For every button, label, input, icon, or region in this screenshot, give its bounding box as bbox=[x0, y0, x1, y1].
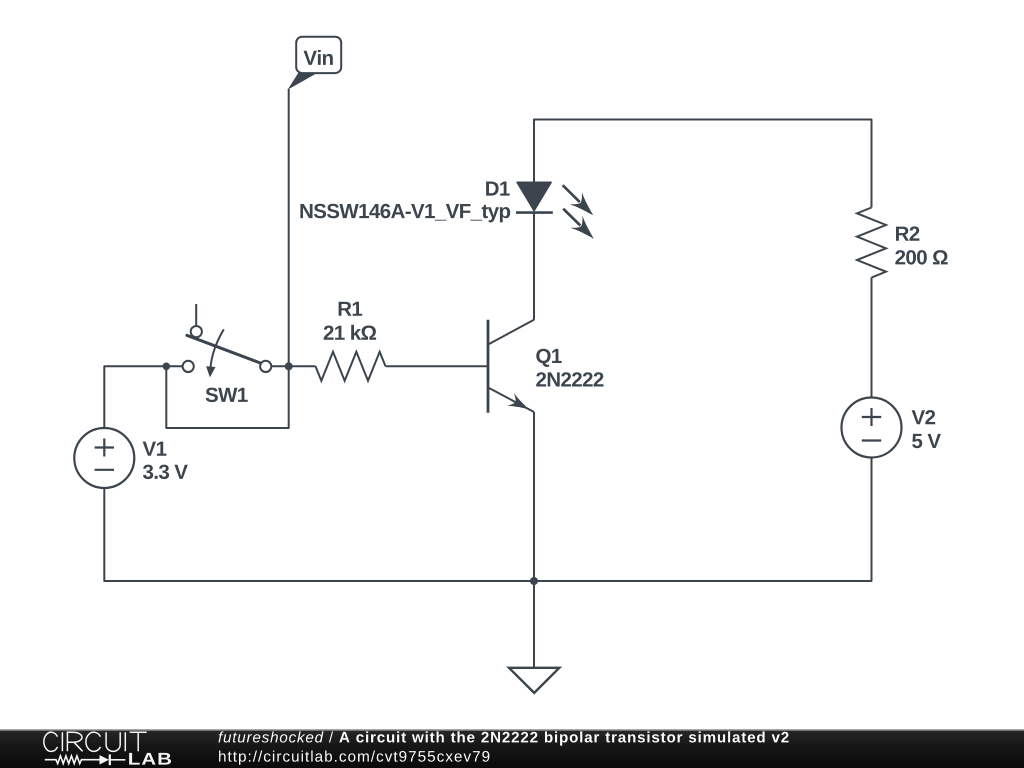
wire LED anode up, top rail, down to R2 bbox=[534, 120, 872, 208]
junction dot A (V1 plus / switch left / U-bend) bbox=[163, 363, 171, 371]
footer url line bbox=[219, 751, 489, 765]
node Vin label box bbox=[296, 37, 341, 73]
voltage source V1 circle bbox=[74, 428, 134, 488]
wire V1 minus down, bottom rail, up to V2 minus bbox=[104, 458, 871, 582]
ground symbol triangle bbox=[509, 668, 559, 693]
V1 minus sign bbox=[95, 469, 114, 471]
wire Vin vertical with U-bend to junction A bbox=[166, 89, 288, 428]
switch SW1 left throw terminal circle bbox=[183, 361, 194, 372]
LED D1 triangle bbox=[517, 182, 551, 211]
value R1 21 kOhm bbox=[324, 325, 376, 340]
value D1 NSSW146A-V1_VF_typ bbox=[300, 204, 510, 223]
junction dot B (Vin wire / switch right / R1 wire) bbox=[285, 362, 293, 370]
logo diode cathode bar bbox=[109, 754, 111, 765]
V2 plus sign bbox=[862, 408, 881, 426]
label D1 bbox=[486, 182, 510, 196]
wire Q1 collector to LED cathode bbox=[533, 213, 535, 320]
switch SW1 top throw stub bbox=[195, 304, 197, 326]
transistor Q1 emitter arrowhead bbox=[507, 393, 532, 416]
value R2 200 Ohm bbox=[895, 250, 947, 265]
logo resistor zigzag lead bbox=[45, 756, 100, 764]
transistor Q1 base bar bbox=[487, 320, 490, 413]
switch SW1 toggle arc arrowhead bbox=[206, 366, 215, 377]
value V2 5 V bbox=[912, 434, 941, 448]
logo diode output lead bbox=[110, 759, 126, 761]
wire R1 to Q1 base bbox=[386, 365, 488, 367]
logo CIRCUIT thin letters bbox=[44, 732, 147, 751]
switch SW1 right common terminal circle bbox=[260, 361, 271, 372]
transistor Q1 emitter diagonal bbox=[489, 388, 534, 412]
footer author name italic bbox=[219, 731, 324, 742]
logo LAB text bbox=[129, 753, 171, 765]
label V2 bbox=[912, 410, 936, 424]
LED D1 emission arrow 2 bbox=[557, 203, 600, 245]
LED D1 cathode bar bbox=[516, 211, 553, 214]
wire ground stem bbox=[533, 581, 535, 668]
footer separator slash bbox=[329, 731, 333, 742]
label V1 bbox=[143, 442, 167, 456]
resistor R1 zigzag bbox=[316, 352, 386, 381]
transistor Q1 collector diagonal bbox=[489, 320, 534, 345]
node Vin label tail bbox=[288, 72, 319, 90]
label R1 bbox=[339, 302, 363, 316]
wire V1 plus up and right to switch left terminal bbox=[104, 366, 182, 428]
node Vin label text bbox=[304, 50, 333, 65]
wire Q1 emitter to bottom rail bbox=[533, 412, 535, 581]
wire switch right terminal to resistor R1 bbox=[271, 365, 315, 367]
value V1 3.3 V bbox=[143, 465, 188, 480]
label R2 bbox=[896, 226, 919, 240]
resistor R2 zigzag bbox=[857, 208, 886, 278]
footer bar top highlight line bbox=[0, 729, 1024, 731]
LED D1 emission arrow 1 bbox=[557, 179, 600, 221]
logo diode symbol bbox=[100, 755, 110, 764]
footer circuit title bold bbox=[339, 731, 788, 745]
junction dot C (emitter / bottom rail / ground) bbox=[530, 577, 538, 585]
V1 plus sign bbox=[95, 439, 114, 457]
value Q1 2N2222 bbox=[536, 372, 603, 386]
V2 minus sign bbox=[862, 439, 881, 441]
footer black bar bbox=[0, 729, 1024, 768]
switch SW1 toggle motion arc bbox=[210, 329, 223, 368]
label Q1 bbox=[536, 349, 561, 367]
switch SW1 blade bbox=[187, 335, 260, 363]
wire R2 to V2 plus bbox=[871, 278, 873, 398]
switch SW1 top throw terminal circle bbox=[191, 326, 202, 337]
label SW1 bbox=[206, 388, 248, 403]
voltage source V2 circle bbox=[842, 398, 902, 458]
